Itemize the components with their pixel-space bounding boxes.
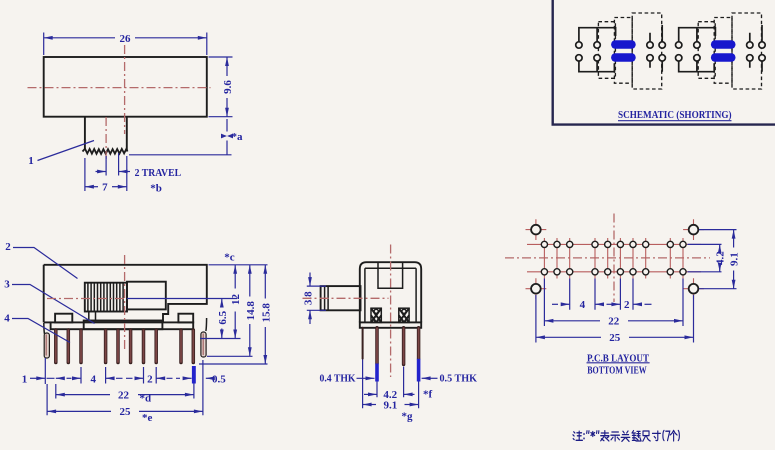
svg-text:12: 12	[230, 294, 242, 306]
svg-text:2: 2	[147, 373, 153, 385]
svg-text:15.8: 15.8	[260, 303, 272, 323]
svg-text:0.4 THK: 0.4 THK	[320, 373, 356, 385]
svg-text:26: 26	[120, 33, 132, 45]
svg-text:2: 2	[5, 241, 11, 253]
svg-text:1: 1	[28, 155, 34, 167]
svg-text:4.2: 4.2	[715, 251, 727, 265]
svg-text:7: 7	[102, 182, 108, 194]
svg-text:*d: *d	[140, 393, 152, 405]
svg-text:25: 25	[120, 406, 132, 418]
svg-text:SCHEMATIC (SHORTING): SCHEMATIC (SHORTING)	[618, 109, 732, 121]
svg-text:25: 25	[609, 332, 621, 344]
svg-text:BOTTOM VIEW: BOTTOM VIEW	[587, 364, 647, 376]
svg-text:6.5: 6.5	[217, 310, 229, 324]
svg-text:*b: *b	[150, 183, 162, 195]
svg-text:0.5: 0.5	[212, 373, 226, 385]
svg-text:4: 4	[4, 313, 10, 325]
svg-text:1: 1	[22, 373, 28, 385]
svg-text:3: 3	[4, 279, 10, 291]
svg-text:*f: *f	[423, 389, 433, 401]
svg-text:2 TRAVEL: 2 TRAVEL	[135, 167, 182, 179]
svg-text:4: 4	[580, 299, 586, 311]
svg-text:22: 22	[608, 316, 620, 328]
svg-text:9.1: 9.1	[729, 252, 741, 266]
svg-text:*a: *a	[232, 131, 244, 143]
svg-text:*e: *e	[142, 412, 153, 424]
svg-text:9.1: 9.1	[384, 399, 398, 411]
svg-text:*g: *g	[402, 411, 414, 423]
svg-text:2: 2	[624, 299, 630, 311]
svg-text:0.5 THK: 0.5 THK	[440, 373, 478, 385]
svg-text:*c: *c	[224, 252, 235, 264]
svg-text:22: 22	[118, 389, 130, 401]
svg-text:14.8: 14.8	[245, 301, 257, 321]
svg-text:9.6: 9.6	[222, 80, 234, 94]
svg-text:4: 4	[90, 373, 96, 385]
